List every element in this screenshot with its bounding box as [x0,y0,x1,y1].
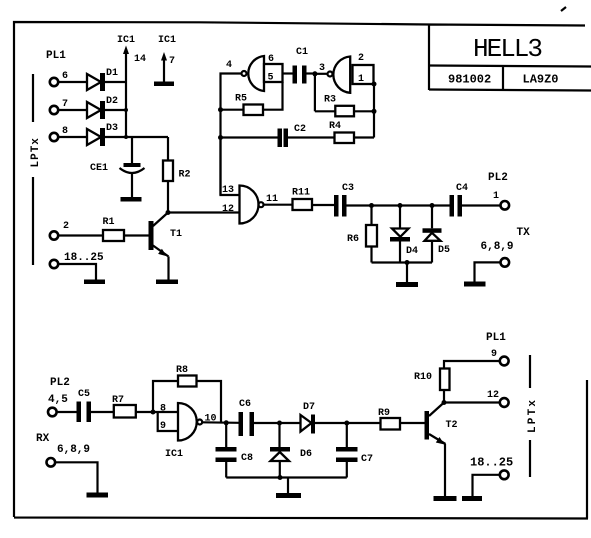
svg-text:9: 9 [491,349,497,360]
capacitor C2 [218,124,306,147]
wire pin8 to D3 [58,136,87,138]
transistor T2 [425,403,458,497]
pin 6,8,9 RX ground [47,444,98,493]
resistor R6 [347,206,377,263]
wire gate IC1d output [202,420,239,425]
wire T2 collector to pin 12 [444,401,500,403]
svg-text:CE1: CE1 [90,163,108,174]
pin 9 (PL1 bottom) [486,332,509,365]
svg-text:R5: R5 [235,94,247,105]
svg-text:C6: C6 [239,399,251,410]
svg-text:3: 3 [319,63,325,74]
pin 2 (PL1) [50,221,69,240]
resistor R8 [153,365,221,423]
wire C4 to PL2 pin 1 [462,204,501,206]
svg-text:D2: D2 [106,96,118,107]
wire C5 to R7 [91,411,114,413]
svg-text:IC1: IC1 [117,35,135,46]
wire pin6 to D1 [58,81,87,83]
pin 1 (PL2) [488,172,509,210]
wire pin to C5 [57,411,77,413]
ground under clamp rail [396,282,418,287]
IC1 pin 7 ground arrow [154,35,176,86]
capacitor C1 [283,47,315,84]
svg-text:R2: R2 [179,170,191,181]
wire bottom rail [226,475,347,493]
svg-text:18..25: 18..25 [64,252,104,264]
svg-text:14: 14 [134,54,146,65]
svg-text:D1: D1 [106,68,118,79]
svg-text:C8: C8 [241,453,253,464]
diode D7 [301,402,316,434]
resistor R7 [112,395,136,418]
wire pin 9 loop [158,404,178,433]
wire clamp rail [372,260,433,282]
pin 6 (PL1) [50,71,68,86]
svg-text:D3: D3 [106,123,118,134]
diode D4 [390,206,418,263]
capacitor C4 [450,183,469,217]
wire R11 to C3 [312,204,334,206]
pin 7 (PL1) [50,99,68,114]
LPTx bracket left [30,74,42,265]
svg-text:2: 2 [358,53,364,64]
pin 4,5 (PL2) [48,408,57,417]
svg-text:6: 6 [62,71,68,82]
diode D3 [87,123,118,146]
resistor R5 [218,82,283,115]
svg-text:T1: T1 [170,229,182,240]
resistor R4 [288,121,374,143]
svg-text:11: 11 [266,194,278,205]
wire R7 to gate IC1d [136,410,178,415]
svg-text:4: 4 [226,60,232,71]
diode D2 [87,96,118,119]
resistor R1 [103,217,125,241]
tick mark top right [561,7,566,11]
svg-text:PL2: PL2 [50,377,70,389]
pin 18..25 (PL1) [50,252,104,268]
wire pin7 to D2 [58,109,87,111]
svg-text:C7: C7 [361,454,373,465]
svg-text:7: 7 [169,56,175,67]
IC1 pin 14 power arrow [117,35,146,82]
capacitor C8 [216,423,254,478]
svg-text:HELL3: HELL3 [473,34,541,64]
svg-text:C2: C2 [294,124,306,135]
ground under bottom rail [276,493,301,498]
svg-text:TX: TX [517,227,531,239]
svg-text:7: 7 [62,99,68,110]
label RX [36,433,50,445]
svg-text:1: 1 [358,74,364,85]
diode D6 [270,423,312,478]
wire D7 to R9 [315,421,381,426]
svg-text:8: 8 [62,126,68,137]
svg-text:T2: T2 [446,420,458,431]
label TX [517,227,531,239]
svg-text:5: 5 [268,73,274,84]
svg-text:R3: R3 [324,95,336,106]
wire D3 row to R2 [105,135,169,139]
pin 18..25 (PL1 bottom) [470,456,513,497]
connector label PL2 bottom [48,377,70,406]
svg-text:8: 8 [160,404,166,415]
svg-text:PL2: PL2 [488,172,508,184]
ground under T1 [156,280,178,285]
nand gate IC1d pins 8,9,10 [165,403,217,460]
pin 12 (PL1 bottom) [487,390,509,407]
label pin 12 [222,204,234,215]
node T1 collector junction [166,210,171,215]
diode D5 [423,206,451,263]
connector label PL1 [46,50,66,62]
ground under RX pin [87,493,109,498]
svg-text:R6: R6 [347,234,359,245]
svg-text:C1: C1 [296,47,308,58]
LPTx bracket right [527,355,539,477]
svg-text:D5: D5 [438,245,450,256]
capacitor C7 [336,423,373,478]
svg-text:12: 12 [222,204,234,215]
capacitor C5 [77,389,92,422]
svg-text:R9: R9 [378,408,390,419]
svg-text:IC1: IC1 [165,449,183,460]
ground under pin 18..25 [462,496,482,501]
svg-text:1: 1 [493,191,499,202]
nand gate IC1c pins 13,12,11 [240,186,279,224]
svg-text:R8: R8 [176,365,188,376]
svg-text:C4: C4 [456,183,468,194]
wire gate IC1a output to left vertical [221,74,242,196]
wire pin18..25 to ground [58,264,96,280]
svg-text:R7: R7 [112,395,124,406]
svg-text:13: 13 [222,185,234,196]
wire node to gate IC1b [315,63,328,74]
svg-text:LPTx: LPTx [527,398,539,433]
svg-text:D6: D6 [300,449,312,460]
diode D1 [87,68,118,91]
svg-text:LA9Z0: LA9Z0 [523,73,559,87]
node T2 collector [442,400,447,405]
svg-text:LPTx: LPTx [30,137,42,167]
wire gate IC1c output to R11 [264,204,293,206]
ground under T2 [434,496,457,501]
svg-text:6,8,9: 6,8,9 [481,241,514,253]
bus wire diodes [125,82,127,137]
svg-text:12: 12 [487,390,499,401]
svg-text:R11: R11 [292,188,310,199]
wire D1 to bus [105,81,127,83]
pin 8 (PL1) [50,126,68,141]
svg-text:6: 6 [268,54,274,65]
resistor R2 [163,137,191,213]
nand gate IC1b pins 1,2,3 [328,53,374,93]
svg-text:4,5: 4,5 [48,394,68,406]
wire mid row C3 to C4 [347,203,450,208]
node gate IC1b input [312,71,317,76]
pin 6,8,9 TX ground [475,241,514,282]
capacitor C3 [334,183,354,217]
svg-text:RX: RX [36,433,50,445]
svg-text:PL1: PL1 [46,50,66,62]
svg-text:R10: R10 [414,372,432,383]
svg-text:R1: R1 [103,217,115,228]
svg-text:6,8,9: 6,8,9 [57,444,90,456]
svg-text:D7: D7 [303,402,315,413]
svg-text:981002: 981002 [448,73,491,87]
nand gate IC1a pins 4,5,6 [226,54,283,91]
svg-text:C5: C5 [78,389,90,400]
wire D2 to bus [105,108,129,112]
svg-text:D4: D4 [406,246,418,257]
wire R1 to T1 base [124,234,149,236]
wire gate IC1b inputs vertical [372,82,377,138]
resistor R3 [315,95,377,117]
wire R9 to T2 base [400,422,425,424]
resistor R9 [378,408,400,430]
wire gate IC1b output down [314,74,316,112]
wire pin 13 [221,138,240,197]
svg-text:C3: C3 [342,183,354,194]
svg-text:9: 9 [160,421,166,432]
svg-text:IC1: IC1 [158,35,176,46]
wire C6 to D7 [254,421,301,426]
capacitor C6 [239,399,255,436]
resistor R10 [414,361,500,403]
ground under CE1 [121,197,142,202]
resistor R11 [292,188,312,211]
svg-text:R4: R4 [329,121,341,132]
ground under TX pin [464,282,486,287]
wire collector row to gate pin 12 [168,211,240,213]
svg-text:PL1: PL1 [486,332,506,344]
svg-text:2: 2 [63,221,69,232]
svg-text:18..25: 18..25 [470,456,513,470]
ground under 18..25 [84,280,105,285]
title block [429,34,591,91]
capacitor CE1 [90,137,145,197]
wire pin2 to R1 [58,234,103,236]
transistor T1 [149,213,183,280]
